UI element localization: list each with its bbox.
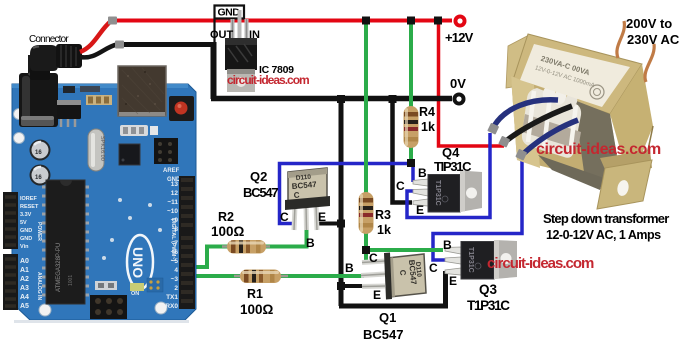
primary copper wire 2	[645, 44, 654, 82]
svg-text:16: 16	[35, 150, 42, 156]
svg-text:SPK16.00: SPK16.00	[99, 136, 105, 161]
label sticker on top	[520, 44, 630, 107]
ground GND box symbol of IC7809	[215, 6, 245, 46]
crimp tip of red lead	[108, 17, 117, 25]
svg-text:GND: GND	[218, 7, 241, 19]
secondary black center tap wire	[506, 106, 572, 141]
transistor Q3 TIP31C (legs left)	[445, 240, 517, 279]
voltage regulator on board	[57, 104, 81, 119]
svg-text:DIGITAL (PWM~): DIGITAL (PWM~)	[170, 218, 176, 262]
wire green +12V to R4	[409, 20, 413, 108]
svg-text:ON: ON	[131, 291, 139, 297]
svg-text:100Ω: 100Ω	[240, 302, 274, 317]
svg-text:circuit-ideas.com: circuit-ideas.com	[227, 73, 309, 87]
pin C of Q1	[362, 261, 385, 263]
resistor R2 100ohm horizontal	[222, 240, 270, 254]
svg-text:B: B	[443, 238, 452, 252]
tab of IC7809	[227, 69, 255, 92]
mounting foot	[597, 160, 652, 209]
front face bracket	[511, 76, 622, 186]
svg-text:13: 13	[171, 181, 179, 188]
terminal 0V	[453, 93, 466, 106]
pin B of Q3	[445, 247, 461, 254]
core dark region right of bobbin	[574, 100, 622, 186]
junction red rail / R3 green	[362, 17, 370, 25]
svg-text:Q4: Q4	[442, 145, 460, 160]
bobbin coil band	[522, 114, 581, 149]
svg-text:A0: A0	[20, 258, 29, 265]
bobbin front white	[522, 88, 581, 158]
smd caps row below usb	[120, 125, 148, 136]
plug barrel into jack	[30, 58, 50, 80]
svg-text:A2: A2	[20, 276, 29, 283]
wire 0V black rail	[211, 96, 452, 102]
tab of Q3	[494, 240, 517, 279]
svg-text:Q3: Q3	[479, 282, 498, 297]
body of Q4	[428, 175, 460, 213]
svg-text:16: 16	[35, 175, 42, 181]
svg-text:IOREF: IOREF	[20, 196, 37, 202]
svg-text:T1P31C: T1P31C	[434, 180, 441, 206]
left power analog header strip	[3, 192, 18, 249]
wire connector black to GND column	[124, 42, 214, 47]
wire Q2 emitter to ground bus	[316, 222, 341, 226]
left end bell face	[506, 35, 529, 88]
svg-text:Step down transformer: Step down transformer	[543, 211, 669, 226]
svg-text:C: C	[369, 251, 378, 265]
svg-text:AREF: AREF	[163, 168, 180, 174]
usb connector	[118, 66, 166, 116]
resistor R1 100ohm horizontal	[234, 270, 288, 284]
pin IN of IC7809	[245, 19, 249, 41]
wire green +12V to R3	[364, 20, 368, 193]
tab of Q4	[460, 171, 482, 213]
body bottom dark sliver	[538, 155, 604, 190]
svg-text:R3: R3	[375, 208, 391, 222]
mounting hole top-left 2	[14, 133, 25, 144]
icsp header 2x3	[90, 295, 127, 319]
svg-text:Q1: Q1	[379, 310, 396, 325]
svg-text:E: E	[373, 288, 381, 302]
svg-text:R2: R2	[218, 210, 234, 224]
arduino uno board photo	[3, 55, 196, 323]
wire ground bus vertical	[339, 99, 344, 306]
svg-text:230V AC: 230V AC	[627, 32, 680, 47]
svg-text:Vin: Vin	[20, 244, 29, 250]
resistor R3 1k vertical	[359, 192, 374, 234]
pin B of Q1	[361, 274, 385, 276]
svg-text:GND: GND	[20, 228, 32, 234]
pin E of Q2	[316, 205, 317, 230]
atmega328 dip chip	[42, 187, 47, 295]
svg-text:1001: 1001	[68, 275, 74, 286]
crimp tip black	[498, 136, 510, 148]
gold vias decorative	[118, 198, 122, 202]
red lead photo curve	[80, 21, 111, 52]
svg-text:C: C	[398, 269, 407, 276]
reset button	[169, 96, 194, 121]
crimp tip blue A	[487, 123, 499, 135]
svg-text:UNO: UNO	[130, 247, 146, 278]
svg-text:5V: 5V	[20, 220, 27, 226]
svg-text:C: C	[429, 261, 438, 275]
svg-text:A5: A5	[20, 303, 29, 310]
dc jack barrel of plug	[28, 55, 50, 75]
svg-text:TIP31C: TIP31C	[434, 159, 472, 174]
pin OUT of IC7809	[231, 19, 235, 41]
svg-text:+12V: +12V	[445, 30, 474, 45]
wire green arduino pin to R1	[191, 274, 240, 278]
crimp tip blue B	[515, 149, 527, 161]
board pcb	[12, 84, 196, 320]
junction red rail / transformer drop	[434, 17, 442, 25]
smd leds and parts lower middle	[95, 281, 117, 290]
junction red rail / R4 green	[407, 17, 415, 25]
pin E of Q1	[362, 284, 385, 290]
pin C of Q4	[413, 189, 428, 196]
right digital header strip	[179, 176, 195, 309]
crimp tip of black lead	[115, 41, 124, 49]
black lead photo curve	[80, 45, 117, 58]
wire blue Q4 collector to transformer	[407, 133, 490, 218]
bobbin tape bumps	[541, 83, 558, 102]
regulator IC 7809 U1 (TO-220, legs up)	[225, 10, 257, 92]
svg-text:200V to: 200V to	[626, 16, 672, 31]
analog pin silk labels	[20, 258, 29, 310]
wire blue R4 junction stub to Q4 base	[411, 163, 415, 182]
svg-text:Connector: Connector	[29, 34, 69, 45]
svg-text:~3: ~3	[171, 276, 179, 283]
secondary blue wire A	[494, 100, 558, 126]
wire green R3 junction to Q3 base	[366, 248, 443, 252]
terminal +12V	[454, 15, 467, 28]
transistor Q1 BC547 (legs left)	[361, 253, 426, 300]
wire red drop to transformer center tap	[439, 20, 505, 146]
body of IC7809	[225, 38, 257, 70]
svg-text:C: C	[293, 191, 300, 200]
svg-text:2: 2	[174, 285, 178, 292]
electrolytic capacitor 2	[30, 165, 51, 186]
JUNCTIONS	[337, 17, 442, 291]
strain relief ribs	[56, 44, 82, 68]
svg-text:R4: R4	[419, 105, 435, 119]
wire green R2 to Q2 base	[264, 228, 307, 247]
dc jack	[19, 73, 58, 127]
pin B of Q2	[304, 205, 310, 230]
svg-text:12-0-12V AC, 1 Amps: 12-0-12V AC, 1 Amps	[546, 228, 661, 242]
shadow joining foot	[600, 150, 652, 174]
connector DC plug photo	[30, 17, 124, 81]
body of Q1	[387, 254, 426, 297]
svg-text:12: 12	[171, 190, 179, 197]
plug body	[30, 45, 58, 71]
svg-text:ATMEGA328P-PU: ATMEGA328P-PU	[56, 243, 62, 292]
core top gold face	[513, 34, 642, 114]
svg-text:TX1: TX1	[166, 294, 178, 301]
svg-text:B: B	[345, 261, 354, 275]
junction R3 bottom node	[362, 246, 370, 254]
svg-text:E: E	[318, 210, 326, 224]
svg-text:A1: A1	[20, 267, 29, 274]
svg-text:4: 4	[174, 267, 178, 274]
crystal oscillator	[88, 129, 104, 171]
svg-text:~11: ~11	[167, 199, 178, 206]
transistor Q2 BC547 (legs down)	[285, 168, 330, 230]
svg-text:A3: A3	[20, 285, 29, 292]
svg-text:T1P31C: T1P31C	[467, 298, 510, 313]
svg-text:Q2: Q2	[250, 169, 267, 184]
wire ground bottom horizontal to Q3 emitter	[339, 271, 446, 306]
svg-text:circuit-ideas.com: circuit-ideas.com	[536, 141, 661, 158]
body of Q3	[461, 242, 494, 280]
wire Q4 emitter black to 0V rail	[393, 99, 413, 203]
power pin silk labels	[20, 196, 39, 250]
secondary blue wire B	[523, 120, 578, 154]
wire green arduino pin to R2	[191, 247, 228, 268]
uno logo oval	[127, 235, 153, 289]
wire +12V top red rail	[116, 19, 452, 23]
svg-text:A4: A4	[20, 294, 29, 301]
svg-text:E: E	[416, 203, 424, 217]
resistor R4 1k vertical	[404, 106, 419, 148]
svg-text:GND: GND	[20, 236, 32, 242]
svg-text:POWER: POWER	[36, 222, 42, 241]
body of Q2	[288, 168, 327, 205]
svg-text:C: C	[396, 179, 405, 193]
wire green R3 bottom to junction and Q1 collector	[364, 232, 368, 263]
wire green R4 bottom to junction	[409, 147, 413, 165]
svg-text:RX0: RX0	[165, 303, 178, 310]
svg-text:T1P31C: T1P31C	[467, 247, 474, 273]
pin C of Q2	[294, 205, 295, 230]
junction 0V rail / ground bus	[337, 95, 345, 103]
mounting hole bottom-right	[155, 302, 167, 314]
pin B of Q4	[413, 179, 428, 186]
pin GND of IC7809	[238, 10, 242, 41]
svg-text:3.3V: 3.3V	[20, 212, 32, 218]
wire blue transformer to Q3 collector	[433, 156, 522, 260]
svg-text:100Ω: 100Ω	[211, 224, 245, 239]
svg-text:~10: ~10	[167, 208, 178, 215]
left bracket highlight edge	[511, 76, 540, 168]
svg-text:R1: R1	[247, 287, 263, 301]
svg-text:BC547: BC547	[243, 185, 278, 200]
mounting hole top-left 1	[14, 109, 25, 120]
electrolytic capacitor 1	[30, 140, 51, 161]
smd parts cluster top	[86, 95, 112, 105]
primary copper wire 1	[617, 21, 625, 58]
right side gold column	[610, 64, 654, 186]
svg-text:1k: 1k	[377, 223, 391, 237]
digital pin number labels	[165, 181, 178, 310]
header 2x4 near aref	[154, 138, 178, 164]
junction 0V rail / Q4 emitter	[389, 95, 397, 103]
junction ground bus / Q2 emitter	[337, 220, 345, 228]
transformer T1 step-down photo	[487, 21, 654, 209]
svg-text:0V: 0V	[450, 76, 466, 91]
transistor Q4 TIP31C (legs left)	[413, 171, 482, 213]
svg-text:BC547: BC547	[363, 327, 403, 342]
wire blue Q2 collector to Q4 base rail	[280, 164, 412, 224]
svg-text:OUT: OUT	[210, 29, 234, 41]
svg-text:E: E	[449, 274, 457, 288]
svg-text:circuit-ideas.com: circuit-ideas.com	[487, 255, 594, 272]
pin C of Q3	[445, 257, 461, 264]
bobbin flange ridges	[528, 91, 534, 142]
wire Q1 emitter to ground bus	[341, 284, 363, 288]
svg-text:C: C	[280, 210, 289, 224]
svg-text:IN: IN	[249, 29, 260, 41]
svg-text:B: B	[418, 166, 427, 180]
svg-text:1k: 1k	[421, 120, 435, 134]
WIRES-LAYER	[116, 20, 522, 306]
board edge shading	[12, 84, 188, 88]
junction R4 bottom node	[407, 159, 415, 167]
atmega16u2 chip	[119, 144, 140, 165]
wire black vertical from connector to 0V rail	[211, 42, 217, 99]
svg-text:B: B	[306, 236, 315, 250]
wire green R1 to Q1 base	[280, 274, 364, 278]
pin E of Q4	[413, 199, 428, 206]
junction ground bus / Q1 emitter	[337, 282, 345, 290]
mounting hole bottom-left	[39, 304, 51, 316]
logo stamp on label	[590, 85, 604, 99]
svg-text:RESET: RESET	[20, 204, 39, 210]
pin E of Q3	[445, 268, 461, 275]
svg-text:ANALOG IN: ANALOG IN	[36, 272, 42, 300]
